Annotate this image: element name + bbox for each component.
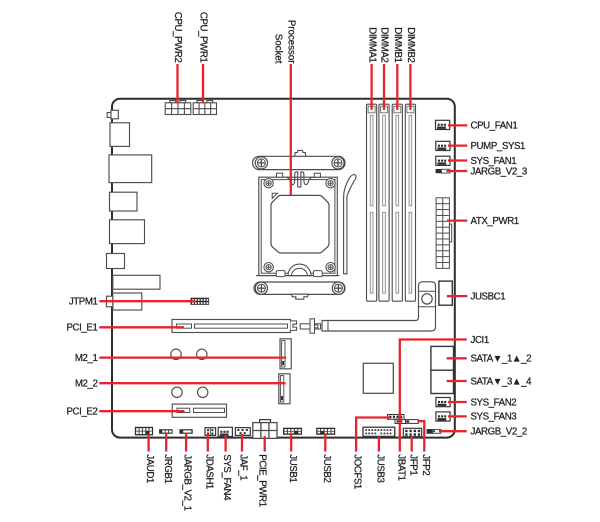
svg-text:PCIE_PWR1: PCIE_PWR1 [257, 454, 268, 506]
memory slot DIMMB2 [405, 104, 415, 301]
svg-text:JRGB1: JRGB1 [162, 454, 173, 483]
M2_2 standoff holes [172, 387, 182, 397]
svg-text:JTPM1: JTPM1 [69, 297, 98, 308]
header JOCFS1 / JCI1 [388, 415, 405, 420]
svg-text:JARGB_V2_1: JARGB_V2_1 [182, 454, 193, 510]
leader PCI_E1 [99, 326, 184, 328]
svg-text:DIMMA1: DIMMA1 [366, 27, 377, 62]
leader ATX_PWR1 [447, 219, 467, 221]
svg-text:SATA▼_1▲_2: SATA▼_1▲_2 [471, 354, 532, 365]
leader JUSBC1 [447, 295, 467, 297]
svg-text:JDASH1: JDASH1 [203, 454, 214, 489]
leader JTPM1 [99, 300, 195, 302]
svg-text:JFP2: JFP2 [420, 454, 431, 475]
leader JUSB3 [378, 437, 380, 452]
leader SYS_FAN3 [448, 415, 467, 417]
connector CPU_PWR1 [197, 101, 203, 103]
fan header SYS_FAN2 [436, 398, 450, 407]
cpu socket bottom dome [288, 264, 311, 276]
leader SATA_1_2 [447, 357, 467, 359]
leader CPU_PWR1 [202, 64, 204, 104]
svg-text:JUSB2: JUSB2 [321, 454, 332, 482]
header JDASH1 [205, 428, 216, 436]
svg-text:SYS_FAN3: SYS_FAN3 [471, 412, 517, 423]
slot PCI_E2 [172, 404, 226, 417]
cpu socket inner frame screw top-left [264, 179, 273, 188]
svg-text:CPU_PWR2: CPU_PWR2 [172, 12, 183, 63]
memory slot DIMMA1 [367, 104, 377, 301]
cpu socket bottom bar center tab [292, 294, 309, 299]
svg-text:DIMMB1: DIMMB1 [392, 27, 403, 62]
leader JRGB1 [165, 433, 167, 452]
leader PCI_E2 [99, 410, 184, 412]
slot M2_2 socket [279, 374, 290, 404]
svg-text:JAUD1: JAUD1 [144, 454, 155, 483]
cpu socket pin-1 triangle [272, 193, 277, 198]
cpu socket top bar screw right [332, 157, 344, 169]
header JRGB1 [159, 429, 173, 434]
leader DIMMB1 [396, 64, 398, 110]
leader JFP1 [411, 437, 413, 452]
cpu socket bottom clips [276, 271, 285, 277]
leader JAUD1 [147, 434, 149, 452]
leader Processor Socket [290, 64, 292, 196]
cpu socket top bar screw left [255, 157, 267, 169]
cpu socket load plate spring (top center) [286, 172, 313, 187]
leader SYS_FAN2 [448, 401, 467, 403]
cpu socket retention frame [259, 177, 338, 275]
M2_1 standoff holes [171, 349, 181, 359]
memory slot DIMMB1 [392, 104, 402, 301]
connector CPU_PWR2 [170, 101, 176, 103]
svg-text:CPU_FAN1: CPU_FAN1 [471, 121, 518, 132]
front panel type-C bracket outline [322, 282, 436, 331]
cpu socket bottom bar screw right [332, 282, 344, 294]
svg-text:M2_1: M2_1 [75, 353, 98, 364]
svg-text:JARGB_V2_2: JARGB_V2_2 [471, 427, 527, 438]
fan header SYS_FAN3 [436, 412, 450, 421]
header JARGB_V2_1 [179, 429, 192, 434]
cpu socket lever [344, 175, 356, 274]
fan header SYS_FAN4 [218, 427, 232, 436]
leader JOCFS1 [356, 418, 390, 452]
leader SATA_3_4 [447, 380, 467, 382]
rear panel port P5 [110, 220, 145, 244]
cpu socket frame bottom line [256, 275, 339, 277]
leader M2_2 [99, 382, 285, 384]
svg-text:CPU_PWR1: CPU_PWR1 [198, 12, 209, 63]
header JTPM1 [191, 298, 210, 305]
leader SYS_FAN4 [224, 435, 226, 452]
rear panel port P6 [107, 254, 125, 269]
header JAF_1 [235, 428, 250, 436]
board outline [112, 99, 455, 438]
fan header CPU_FAN1 [436, 120, 450, 129]
leader DIMMA1 [370, 64, 372, 110]
leader CPU_FAN1 [448, 124, 467, 126]
leader CPU_PWR2 [176, 64, 178, 104]
cpu socket inner frame screw bottom-left [264, 263, 273, 272]
leader JARGB_V2_2 [439, 430, 467, 432]
leader JUSB2 [324, 434, 326, 452]
svg-text:JFP1: JFP1 [407, 454, 418, 475]
svg-text:DIMMA2: DIMMA2 [379, 27, 390, 62]
leader JUSB1 [290, 434, 292, 452]
leader SYS_FAN1 [448, 159, 467, 161]
connector ATX_PWR1 [436, 198, 449, 269]
svg-text:ATX_PWR1: ATX_PWR1 [471, 216, 519, 227]
leader DIMMA2 [383, 64, 385, 110]
header JARGB_V2_3 [436, 169, 442, 173]
svg-text:PCI_E1: PCI_E1 [67, 323, 98, 334]
cpu socket bottom bracket bar [254, 282, 345, 294]
header JAUD1 [135, 427, 153, 436]
connector JUSBC1 [439, 281, 452, 305]
svg-text:JCI1: JCI1 [471, 335, 489, 346]
header JFP1 [403, 428, 421, 436]
leader PCIE_PWR1 [264, 436, 266, 452]
slot PCI_E1 [172, 320, 291, 333]
connector SATA 1 2 [431, 346, 454, 370]
cpu socket inner frame screw bottom-right [326, 263, 335, 272]
memory slot DIMMA2 [379, 104, 389, 301]
svg-text:JAF_1: JAF_1 [238, 454, 249, 480]
bracket screw hole [422, 294, 432, 304]
rear panel port P4 [110, 192, 138, 211]
connector PCIE_PWR1 [260, 420, 271, 423]
leader JCI1 [400, 340, 467, 452]
fan header SYS_FAN1 [436, 156, 450, 165]
cpu socket top bracket bar [295, 150, 306, 156]
chipset [363, 363, 393, 393]
cpu socket inner frame screw top-right [326, 179, 335, 188]
header JUSB1 [283, 428, 302, 435]
svg-text:JUSB1: JUSB1 [287, 454, 298, 482]
svg-text:SATA▼_3▲_4: SATA▼_3▲_4 [471, 376, 533, 387]
rear panel audio block P8 [113, 293, 142, 310]
leader JARGB_V2_1 [185, 433, 187, 452]
svg-text:Socket: Socket [273, 34, 284, 64]
svg-text:Processor: Processor [286, 20, 297, 64]
connector SATA 3 4 [431, 370, 454, 393]
svg-text:PUMP_SYS1: PUMP_SYS1 [471, 141, 526, 152]
header JARGB_V2_2 [427, 429, 433, 434]
svg-text:JUSB3: JUSB3 [375, 454, 386, 482]
cpu socket frame top tabs [277, 173, 283, 177]
leader JFP2 [418, 421, 425, 451]
slot PCI_E1 latch [291, 321, 297, 331]
header JUSB2 [316, 428, 335, 435]
svg-text:DIMMB2: DIMMB2 [405, 27, 416, 62]
cpu socket opening [271, 195, 329, 253]
svg-text:SYS_FAN4: SYS_FAN4 [221, 454, 232, 501]
fan header PUMP_SYS1 [436, 141, 450, 150]
rear panel port P3 [109, 155, 152, 183]
leader PUMP_SYS1 [448, 144, 467, 146]
svg-text:PCI_E2: PCI_E2 [67, 407, 98, 418]
rear panel port P7 [113, 275, 160, 289]
leader JAF_1 [241, 434, 243, 452]
svg-text:JARGB_V2_3: JARGB_V2_3 [471, 166, 527, 177]
leader DIMMB2 [409, 64, 411, 110]
svg-text:M2_2: M2_2 [75, 379, 98, 390]
rear panel port P1 (small plug) [111, 110, 118, 119]
cpu socket bottom bar screw left [255, 282, 267, 294]
svg-text:JUSBC1: JUSBC1 [471, 291, 506, 302]
leader M2_1 [99, 356, 286, 358]
header JBAT1 / JFP2 [395, 419, 406, 423]
svg-text:JBAT1: JBAT1 [395, 454, 406, 480]
leader JARGB_V2_3 [447, 170, 468, 172]
svg-text:SYS_FAN2: SYS_FAN2 [471, 397, 517, 408]
slot M2_1 socket [280, 339, 291, 369]
leader JDASH1 [207, 434, 209, 452]
connector JUSB3 [363, 427, 395, 436]
rear panel port P2 [110, 123, 130, 147]
svg-text:SYS_FAN1: SYS_FAN1 [471, 156, 517, 167]
svg-text:JOCFS1: JOCFS1 [352, 454, 363, 489]
